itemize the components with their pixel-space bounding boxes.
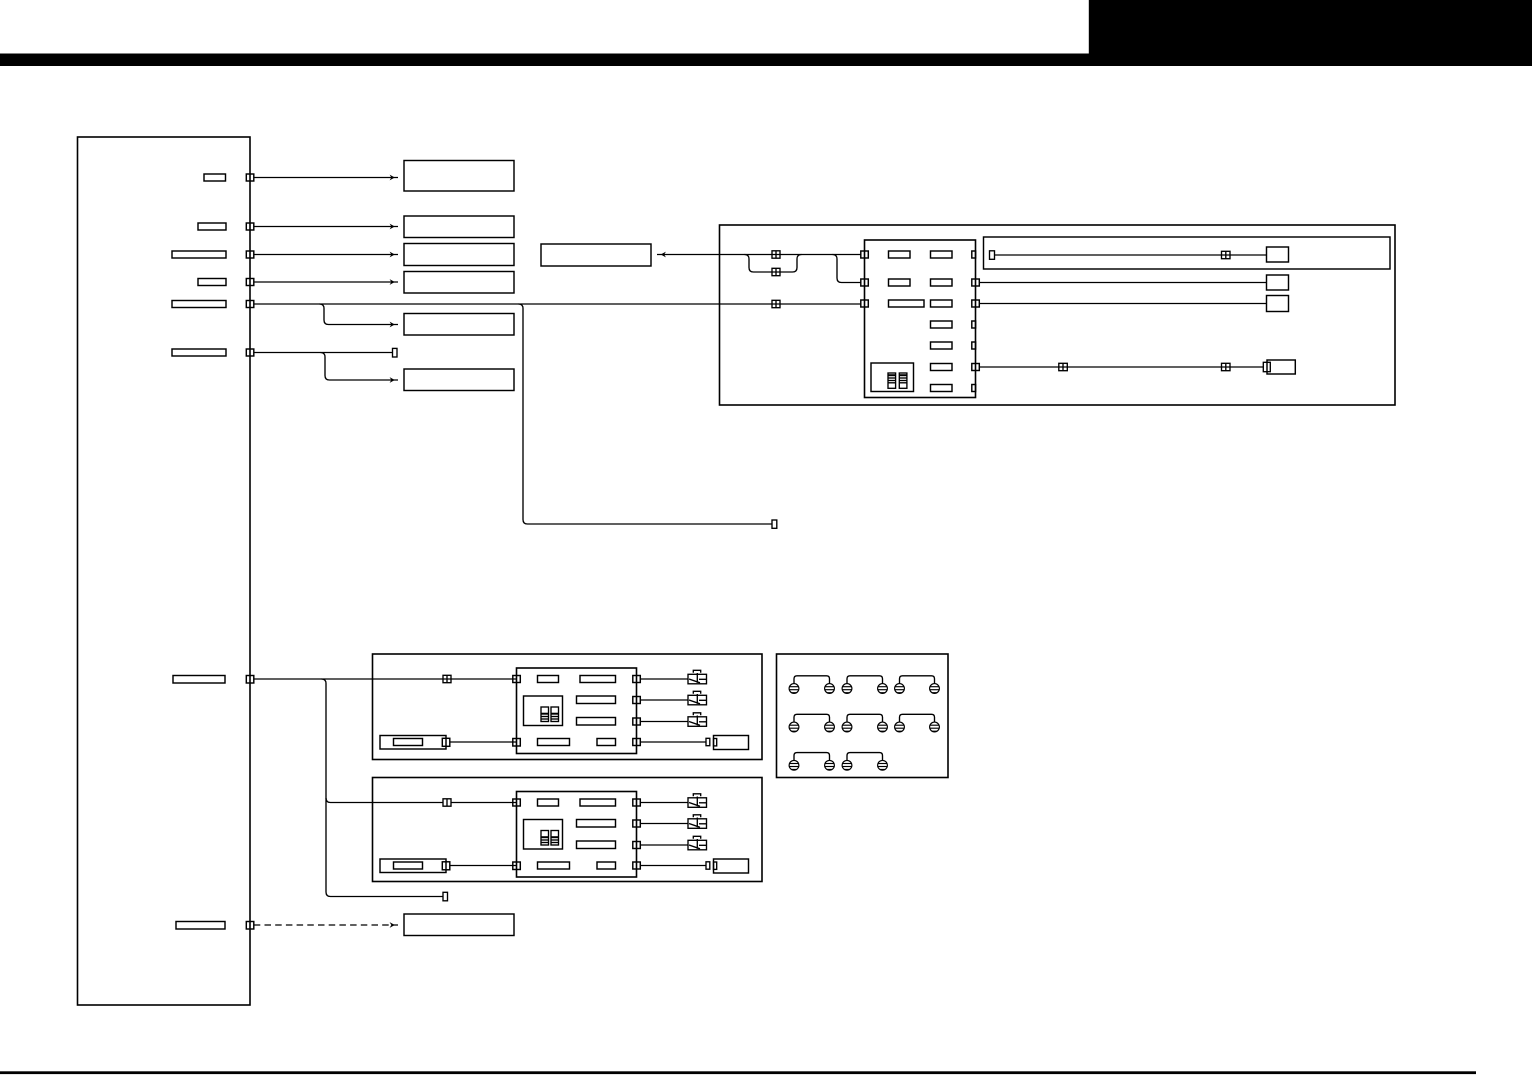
- pin label 2: [198, 223, 226, 230]
- unit A breaker symbol row2: [688, 691, 707, 705]
- inline connector pair r6 a: [1059, 363, 1068, 370]
- tuner label R6: [931, 364, 953, 371]
- plug box R6: [1267, 360, 1295, 374]
- dashed wire pin8 to box B7: [254, 922, 398, 928]
- unit A feed box: [380, 736, 446, 750]
- ground terminal G3aL: [789, 760, 799, 770]
- ground terminal G2cR: [930, 722, 940, 732]
- tuner right pin r4 (half): [972, 321, 976, 328]
- pin label 5: [172, 301, 226, 308]
- box B6: [404, 369, 514, 391]
- plug half-connector r6: [1263, 362, 1270, 371]
- unit A breaker symbol row1: [688, 670, 707, 684]
- antenna lead terminal: [772, 520, 777, 528]
- ground terminal G2aL: [789, 722, 799, 732]
- unit B label mid-right 1: [577, 820, 616, 828]
- inline connector pair B row1: [443, 799, 451, 806]
- dip switch S1: [888, 373, 896, 388]
- plug box R3: [1267, 296, 1289, 312]
- ground distribution box: [777, 654, 949, 778]
- tuner label R7: [931, 385, 953, 392]
- speaker amp unit A outer box: [373, 654, 763, 760]
- unit A label top-right: [580, 676, 616, 683]
- unit A wire row1 to breaker: [640, 678, 688, 680]
- tuner label R4: [931, 321, 953, 328]
- unit B dip switch box: [524, 820, 563, 850]
- box C: [541, 244, 651, 266]
- wire pin2 to box B2: [254, 224, 398, 230]
- ground strap G3b: [847, 753, 883, 761]
- box B7: [404, 914, 514, 936]
- header title block (solid): [1089, 0, 1532, 66]
- ground terminal G3bR: [878, 760, 888, 770]
- unit B label bottom-left: [538, 862, 570, 869]
- edge connector pin 2: [246, 223, 254, 230]
- unit A module pin right row4: [633, 739, 641, 746]
- unit B module pin right row4: [633, 862, 641, 869]
- wire pin5 trunk to tuner unit: [254, 303, 861, 305]
- unit A module pin right row2: [633, 697, 641, 704]
- pin label 1: [204, 174, 226, 181]
- unit A module pin left row1: [513, 676, 521, 683]
- pin label 7: [173, 676, 225, 684]
- unit A row4 plug box: [714, 736, 749, 750]
- unit A label mid-right 1: [577, 696, 616, 704]
- unit B module pin left row4: [513, 862, 521, 870]
- speaker amp unit B outer box: [373, 778, 763, 882]
- unit B feed box pin: [442, 862, 450, 870]
- unit B wire row2 to breaker: [640, 823, 688, 825]
- unit A wire row4 to plug: [640, 741, 706, 743]
- inline connector pair on bypass loop: [772, 268, 780, 275]
- unit A module pin right row3: [633, 718, 641, 725]
- inline connector pair r6 b: [1222, 363, 1231, 370]
- edge connector pin 3: [246, 251, 254, 258]
- unit B dip switch s1: [541, 831, 549, 846]
- tuner right pin r7 (half): [972, 385, 976, 392]
- ground strap G3a: [794, 753, 830, 761]
- box B1: [404, 161, 514, 192]
- tuner pin L2 connector: [861, 279, 869, 286]
- branch pin6 to box B6: [321, 353, 399, 383]
- antenna feeder long box: [984, 237, 1391, 269]
- ground strap G2b: [847, 714, 883, 722]
- box B3: [404, 244, 514, 266]
- feeder left terminal: [990, 251, 995, 259]
- tuner label R1: [931, 251, 953, 258]
- unit A dip switch s2: [551, 707, 559, 722]
- plug box R1: [1267, 247, 1289, 262]
- tuner label R5: [931, 342, 953, 349]
- main relay compartment box: [720, 225, 1396, 405]
- ground terminal G3bL: [842, 760, 852, 770]
- unit B wire row4 to plug: [640, 865, 706, 867]
- inline connector pair on wire1 (upper): [772, 251, 780, 258]
- tuner right pin r3: [972, 300, 980, 307]
- unit A module pin left row4: [513, 739, 521, 747]
- unit A feed box pin: [442, 738, 450, 746]
- edge connector pin 6: [246, 349, 254, 356]
- wire pin1 to box B1: [254, 175, 398, 181]
- tuner unit box: [865, 240, 976, 398]
- wire pin7 trunk: [254, 678, 517, 680]
- inline connector pair on pin5 trunk: [772, 300, 780, 307]
- unit A label bottom-left: [538, 739, 570, 746]
- wire pin6 stub: [254, 352, 393, 354]
- unit B feed box: [380, 859, 446, 873]
- tuner right pin r6: [972, 364, 980, 371]
- ground terminal G2bR: [878, 722, 888, 732]
- branch pin7 down: [322, 679, 444, 897]
- unit B module pin left row1: [513, 799, 521, 806]
- unit A row4 plug tab: [714, 739, 717, 746]
- branch to speaker unit B row1: [326, 798, 443, 803]
- unit B row4 plug box: [714, 859, 749, 873]
- unit A label top-left: [538, 676, 559, 683]
- wire pin4 to box B4: [254, 279, 398, 285]
- unit B label top-right: [580, 799, 616, 806]
- unit B label top-left: [538, 799, 559, 806]
- unit A feed box label: [394, 739, 423, 746]
- unit B module pin right row1: [633, 799, 641, 806]
- branch wire1 down to tuner pin L2: [833, 255, 862, 283]
- footer rule: [0, 1071, 1476, 1074]
- branch pin5 to box B5: [320, 304, 399, 327]
- pin label 3: [172, 251, 226, 258]
- unit A label mid-right 2: [577, 718, 616, 726]
- edge connector pin 7: [246, 676, 254, 684]
- unit A wire row2 to breaker: [640, 699, 688, 701]
- wire B row1 to unit: [451, 802, 517, 804]
- unit A label bottom-right: [597, 739, 616, 746]
- tuner right pin r5 (half): [972, 342, 976, 349]
- ground terminal G2aR: [825, 722, 835, 732]
- wire from main relay box to box C (leftward): [657, 252, 861, 258]
- ECU main unit box: [78, 137, 251, 1005]
- tuner right pin r2: [972, 279, 980, 286]
- ground strap G1a: [794, 676, 830, 684]
- unit B wire row1 to breaker: [640, 802, 688, 804]
- bypass loop wire with lower connector: [745, 255, 802, 273]
- wire r2: [979, 282, 1266, 284]
- wire r6: [979, 366, 1263, 368]
- ground terminal G2bL: [842, 722, 852, 732]
- tuner pin L1 connector: [861, 251, 869, 258]
- branch pin5 drop wire to antenna lead: [519, 304, 773, 524]
- box B5: [404, 314, 514, 336]
- unit B module pin right row2: [633, 820, 641, 827]
- ground strap G1c: [900, 676, 935, 684]
- inline connector pair on feeder wire: [1222, 251, 1231, 258]
- feeder wire: [995, 254, 1267, 256]
- unit A inner module box: [517, 668, 637, 754]
- ground terminal G1aL: [789, 684, 799, 694]
- ground terminal G3aR: [825, 760, 835, 770]
- unit B feed wire: [450, 865, 517, 867]
- inline connector pair pin7: [443, 675, 451, 682]
- unit B breaker symbol row3: [688, 836, 707, 850]
- box B4: [404, 272, 514, 294]
- ground terminal G1bR: [878, 684, 888, 694]
- wire pin3 to box B3: [254, 252, 398, 258]
- branch end terminal: [443, 892, 448, 901]
- edge connector pin 8: [246, 922, 254, 930]
- tuner label L2: [889, 279, 911, 286]
- ground terminal G1aR: [825, 684, 835, 694]
- ground strap G2a: [794, 714, 830, 722]
- pin6 stub terminal: [393, 348, 398, 357]
- tuner pin L3 connector: [861, 300, 869, 307]
- unit B breaker symbol row2: [688, 815, 707, 829]
- tuner label L3 (wide): [889, 300, 925, 307]
- tuner right pin r1 (half): [972, 251, 976, 258]
- unit A module pin right row1: [633, 676, 641, 683]
- ground terminal G1cL: [895, 684, 905, 694]
- tuner label R2: [931, 279, 953, 286]
- unit B label bottom-right: [597, 862, 616, 869]
- pin label 4: [198, 279, 226, 286]
- unit A dip switch box: [524, 696, 563, 726]
- pin label 8: [176, 922, 225, 930]
- unit B row4 plug tab: [714, 862, 717, 869]
- unit A breaker symbol row3: [688, 713, 707, 727]
- ground terminal G2cL: [895, 722, 905, 732]
- unit B module pin right row3: [633, 842, 641, 849]
- unit A wire row3 to breaker: [640, 721, 688, 723]
- ground terminal G1bL: [842, 684, 852, 694]
- pin label 6: [172, 349, 226, 356]
- unit B label mid-right 2: [577, 841, 616, 849]
- unit B wire row3 to breaker: [640, 844, 688, 846]
- unit A feed wire: [450, 741, 517, 743]
- wire r3: [979, 303, 1266, 305]
- ground strap G1b: [847, 676, 883, 684]
- edge connector pin 5: [246, 301, 254, 308]
- unit B row4 terminal: [706, 862, 710, 869]
- tuner dip switch box: [871, 363, 914, 392]
- dip switch S2: [899, 373, 907, 388]
- unit B feed box label: [394, 862, 423, 869]
- unit A dip switch s1: [541, 707, 549, 722]
- header rule bar: [0, 54, 1532, 67]
- unit B dip switch s2: [551, 831, 559, 846]
- edge connector pin 4: [246, 279, 254, 286]
- tuner label L1: [889, 251, 911, 258]
- ground strap G2c: [900, 714, 935, 722]
- box B2: [404, 216, 514, 238]
- tuner label R3: [931, 300, 953, 307]
- unit A row4 terminal: [706, 738, 710, 745]
- edge connector pin 1: [246, 174, 254, 181]
- plug box R2: [1267, 275, 1289, 290]
- ground terminal G1cR: [930, 684, 940, 694]
- unit B inner module box: [517, 792, 637, 878]
- unit B breaker symbol row1: [688, 794, 707, 808]
